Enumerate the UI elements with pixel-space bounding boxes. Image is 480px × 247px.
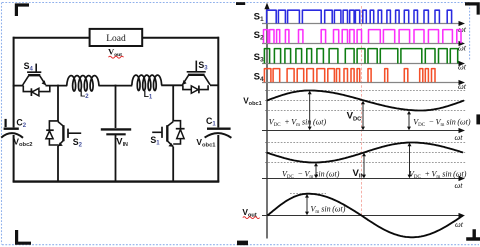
waveform y-axis xyxy=(266,7,268,239)
axis S4 row xyxy=(262,82,459,84)
arrow VDC-Vm row5 xyxy=(408,114,410,127)
crop mark bottom-right xyxy=(466,229,480,239)
svg-text:ωt: ωt xyxy=(455,220,464,229)
waveform Vout sine xyxy=(268,194,464,238)
diode D4 (antiparallel with S4) xyxy=(23,86,50,96)
waveform VIN sine xyxy=(267,143,464,163)
waveform S3 gate pulses xyxy=(264,49,457,64)
capacitor C1 xyxy=(207,127,231,129)
svg-text:ωt: ωt xyxy=(455,181,464,190)
transistor S2 xyxy=(58,122,81,147)
svg-text:ωt: ωt xyxy=(458,63,467,72)
source VIN (battery) xyxy=(101,128,131,130)
axis Vout row xyxy=(262,215,459,217)
handle left-middle xyxy=(5,119,7,127)
load box xyxy=(90,29,143,46)
wire right rail xyxy=(217,37,219,182)
svg-text:ωt: ωt xyxy=(458,44,467,53)
inductor L1 xyxy=(132,75,162,90)
waveform S4 gate pulses xyxy=(264,69,435,83)
wire bottom rail xyxy=(13,180,220,182)
axis Vobc1 row xyxy=(262,130,459,132)
wire mid rail xyxy=(13,85,24,87)
arrow VDC-Vm row6 xyxy=(315,166,317,175)
transistor S3 xyxy=(182,61,210,85)
axis S3 row xyxy=(262,63,459,65)
crop mark top-left xyxy=(16,5,29,16)
transistor S4 xyxy=(23,64,46,86)
wire S2 branch xyxy=(57,85,59,182)
wire top rail left xyxy=(13,37,90,39)
crop mark top-right xyxy=(465,4,478,15)
svg-text:ωt: ωt xyxy=(458,82,467,91)
svg-text:Load: Load xyxy=(106,34,126,44)
axis VIN row xyxy=(262,178,459,180)
wire S1 branch xyxy=(172,85,174,182)
handle bottom-middle xyxy=(237,241,248,246)
crop mark bottom-left xyxy=(17,230,31,243)
wire VIN branch xyxy=(115,85,117,182)
dashed level lines row5 xyxy=(265,91,467,111)
arrow VDC+Vm row6 xyxy=(409,146,411,175)
waveform S2 gate pulses xyxy=(264,30,462,44)
axis S1 row xyxy=(262,23,459,25)
diode D3 (antiparallel with S3) xyxy=(183,85,208,93)
transistor S1 xyxy=(152,122,173,147)
handle right-middle xyxy=(476,114,480,124)
dashed peak level row7 xyxy=(290,193,326,195)
capacitor C2 xyxy=(4,127,19,129)
waveform S1 gate pulses xyxy=(267,10,452,23)
handle top-middle xyxy=(236,2,245,5)
arrow VIN row6 xyxy=(363,156,365,175)
dashed level lines row6 xyxy=(265,143,467,163)
diode D2 (antiparallel with S2) xyxy=(46,121,58,145)
arrow Vm row7 xyxy=(306,197,308,212)
arrow VDC row5 xyxy=(362,104,364,127)
diode D1 (antiparallel with S1) xyxy=(173,121,184,144)
axis S2 row xyxy=(262,43,459,45)
svg-text:ωt: ωt xyxy=(455,133,464,142)
wire top rail right xyxy=(142,37,219,39)
red dashed time marker xyxy=(361,6,363,215)
wire left rail xyxy=(13,37,15,182)
arrow VDC+Vm row5 xyxy=(309,94,311,127)
inductor L2 xyxy=(67,76,99,91)
waveform Vobc1 sine xyxy=(267,91,464,111)
